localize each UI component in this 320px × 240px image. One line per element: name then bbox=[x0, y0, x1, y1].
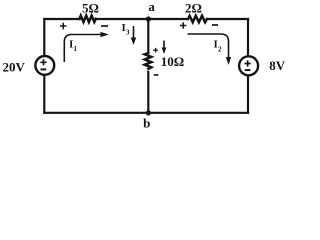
svg-text:2: 2 bbox=[218, 46, 222, 54]
wire top-middle segment bbox=[96, 18, 188, 20]
node b junction dot bbox=[146, 110, 151, 115]
current arrow I3 bbox=[133, 26, 135, 39]
R2 polarity plus bbox=[180, 22, 186, 28]
wire right lower bbox=[247, 76, 249, 113]
wire top-right segment bbox=[207, 18, 248, 20]
svg-text:8V: 8V bbox=[269, 58, 286, 73]
svg-text:a: a bbox=[148, 0, 155, 14]
R3 polarity minus bbox=[154, 74, 159, 76]
svg-text:b: b bbox=[143, 116, 150, 131]
svg-text:20V: 20V bbox=[3, 60, 26, 75]
wire left lower bbox=[43, 76, 45, 113]
wire middle upper bbox=[147, 19, 149, 53]
R3 polarity plus bbox=[153, 48, 158, 53]
current arrow I2 bbox=[188, 34, 229, 58]
svg-text:1: 1 bbox=[74, 45, 78, 53]
resistor R1 5ohm zigzag bbox=[80, 16, 96, 22]
resistor R3 10ohm zigzag bbox=[145, 53, 152, 69]
wire right upper bbox=[247, 19, 249, 55]
R1 polarity plus bbox=[60, 23, 66, 29]
V2 minus sign bbox=[245, 69, 251, 71]
svg-text:3: 3 bbox=[126, 29, 130, 37]
current arrow I1 bbox=[64, 35, 102, 63]
svg-text:2Ω: 2Ω bbox=[185, 1, 202, 16]
svg-text:10Ω: 10Ω bbox=[161, 54, 184, 69]
wire left upper bbox=[43, 19, 45, 55]
svg-text:5Ω: 5Ω bbox=[82, 1, 99, 16]
resistor R2 2ohm zigzag bbox=[188, 16, 207, 22]
wire top-left segment bbox=[44, 18, 79, 20]
source V1 20V circle bbox=[35, 56, 54, 75]
V1 minus sign bbox=[41, 68, 47, 70]
R3 current arrow bbox=[163, 41, 165, 49]
V1 plus sign bbox=[40, 59, 46, 65]
R2 polarity minus bbox=[212, 24, 218, 26]
V2 plus sign bbox=[245, 60, 251, 66]
node a junction dot bbox=[146, 16, 151, 21]
wire bottom bbox=[44, 112, 248, 114]
wire middle lower bbox=[147, 72, 149, 113]
source V2 8V circle bbox=[239, 56, 258, 75]
R1 polarity minus bbox=[101, 25, 108, 27]
